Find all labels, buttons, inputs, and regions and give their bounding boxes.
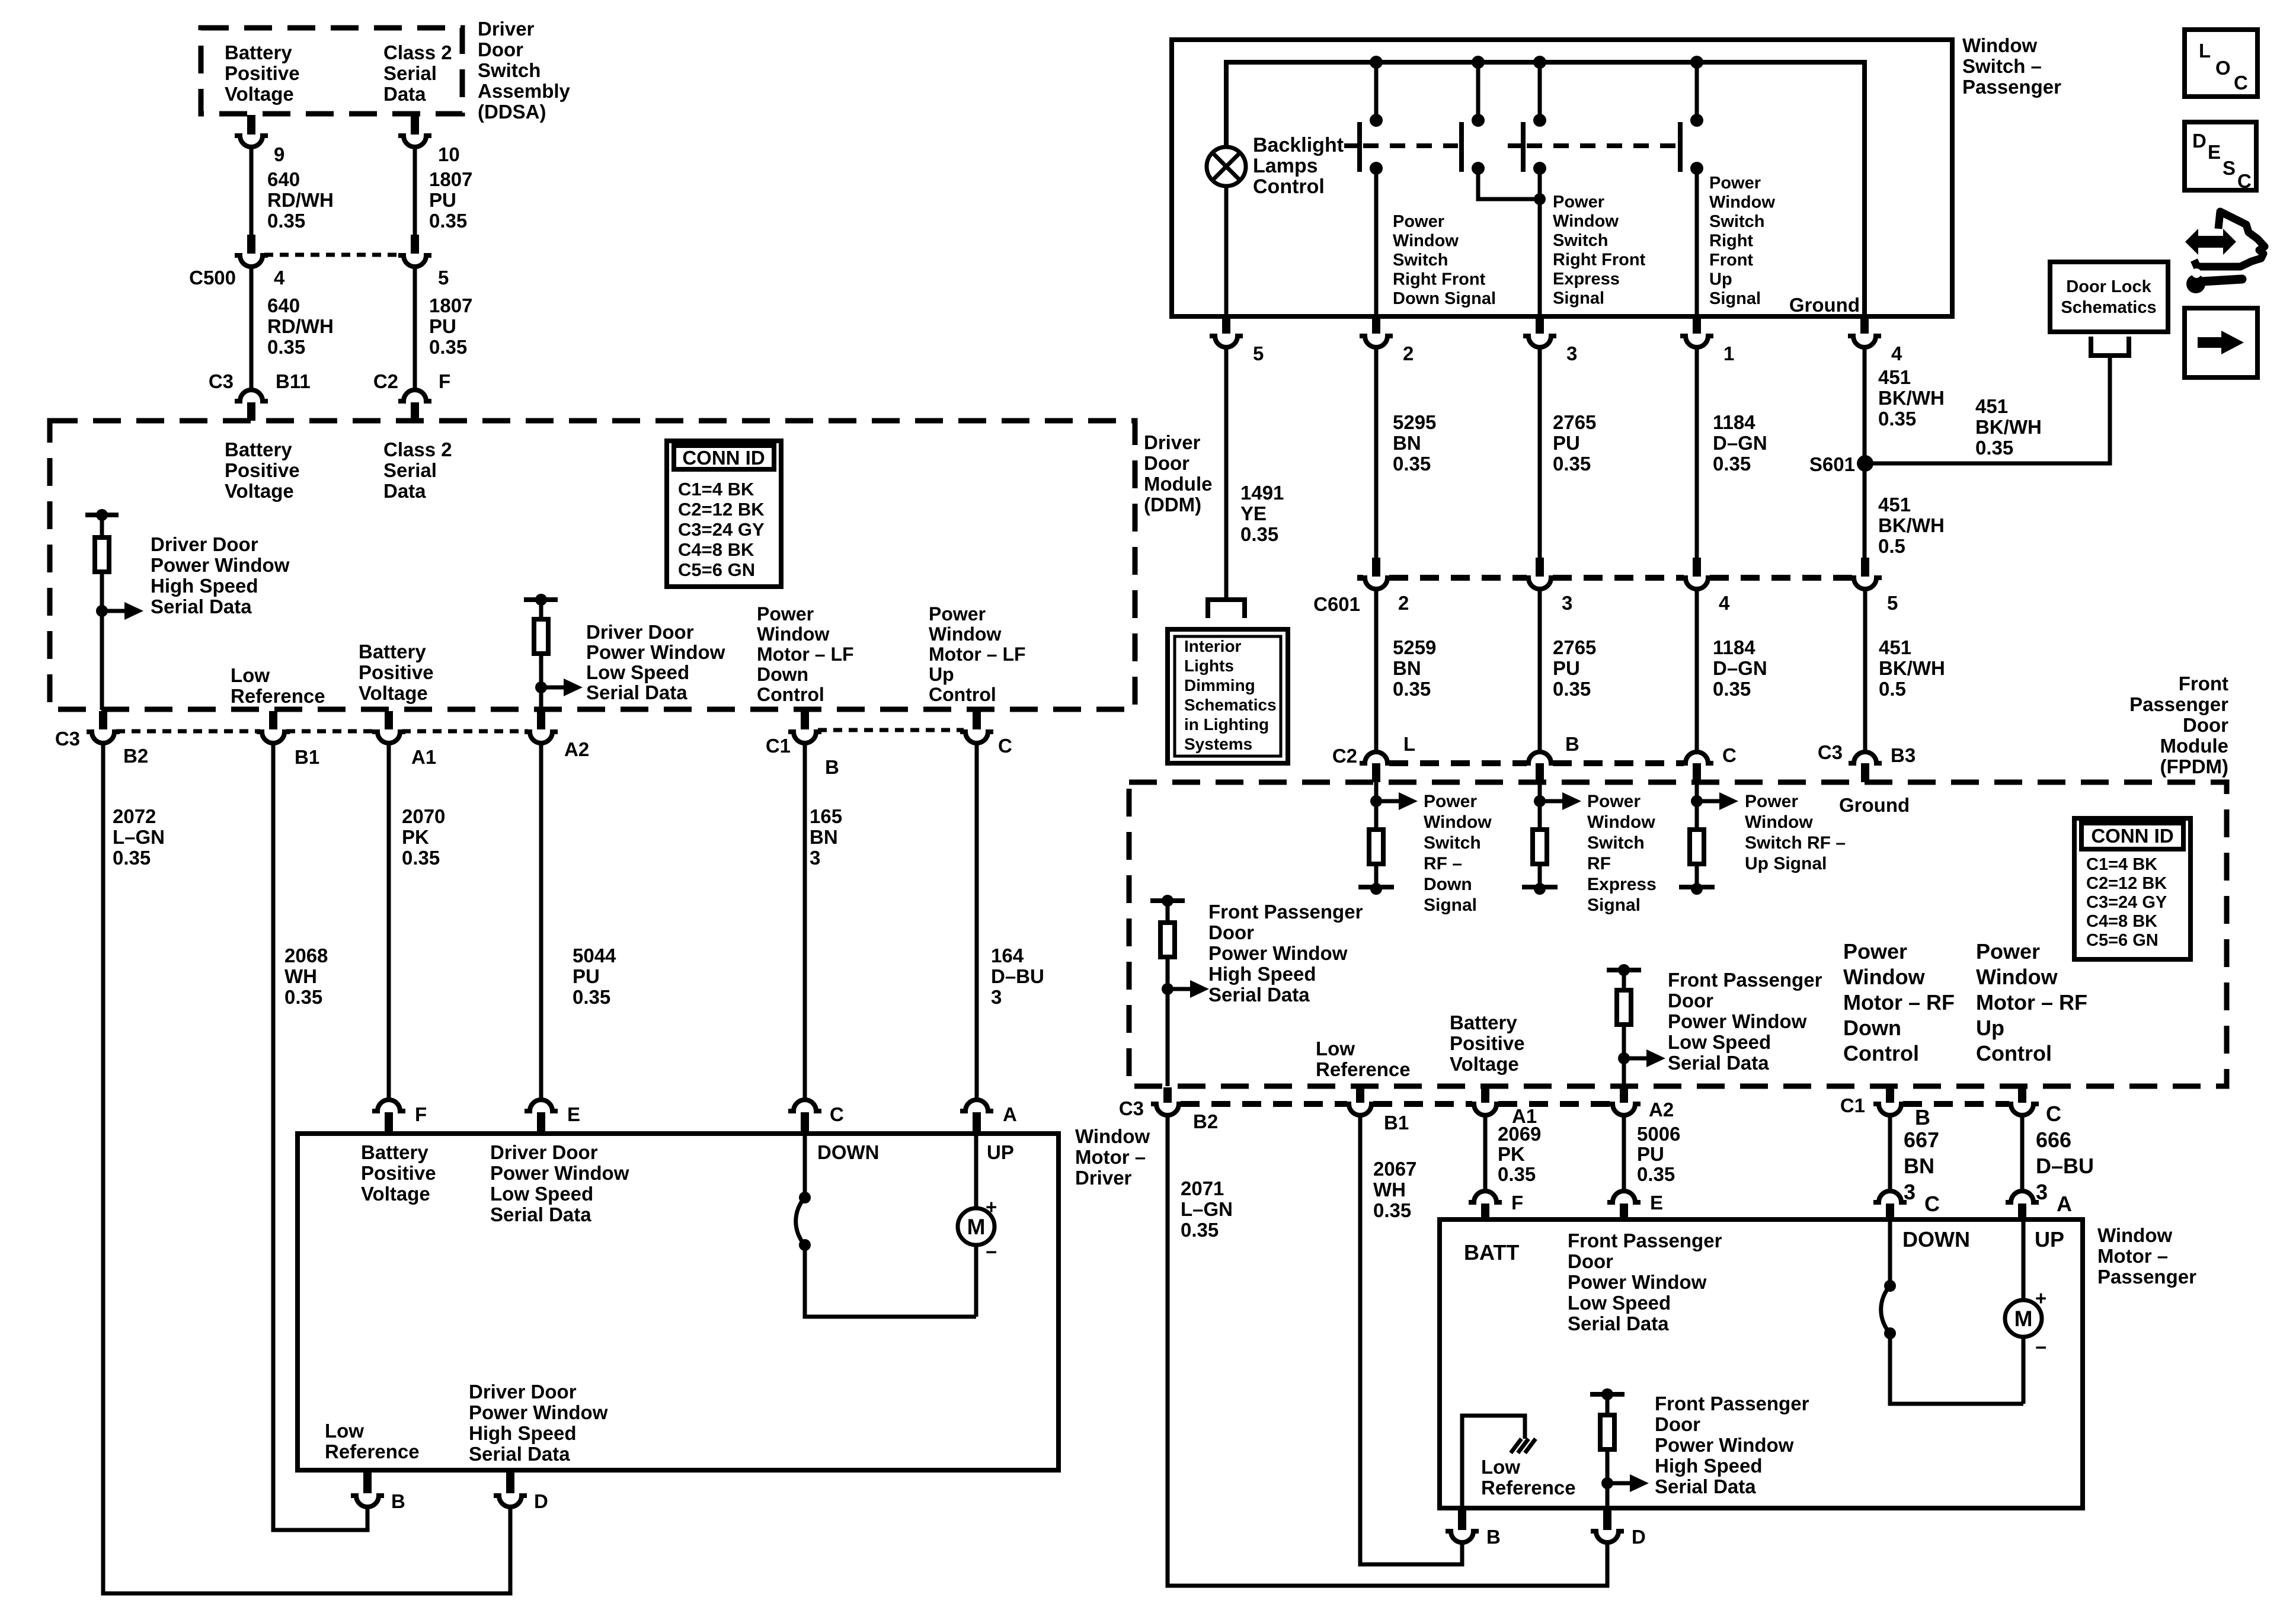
wire resistor to DDM edge (B2 pin) — [100, 572, 104, 710]
wire 165 BN (DDM B to motor C) — [803, 743, 807, 1100]
svg-text:Low Speed: Low Speed — [490, 1183, 593, 1205]
connector motor pin D (driver) — [494, 1471, 527, 1507]
svg-text:A2: A2 — [1649, 1099, 1674, 1121]
pin label B2 (DDM) — [123, 745, 148, 767]
svg-text:0.35: 0.35 — [429, 336, 467, 358]
pin label F (driver motor) — [415, 1103, 427, 1125]
connector C3-B3 into FPDM — [1849, 752, 1882, 782]
svg-text:C1: C1 — [766, 735, 791, 757]
wire switch1 left to pin 2 — [1374, 168, 1379, 316]
connector motor pin C (driver) — [788, 1100, 821, 1134]
switch contact dot lower (driver motor) — [799, 1239, 811, 1251]
svg-text:0.35: 0.35 — [1713, 453, 1751, 475]
svg-text:CONN ID: CONN ID — [682, 447, 765, 469]
svg-text:Class 2: Class 2 — [383, 41, 452, 63]
label Driver Door Power Window High Speed Serial Data — [151, 533, 290, 617]
svg-text:Front: Front — [2179, 673, 2228, 694]
wire switch2 left to pin 3 — [1538, 168, 1542, 316]
svg-text:3: 3 — [1562, 592, 1572, 614]
svg-text:Power: Power — [1745, 792, 1798, 811]
svg-text:0.35: 0.35 — [573, 986, 610, 1008]
svg-text:C3=24 GY: C3=24 GY — [678, 519, 765, 540]
label C3 (FPDM bottom row) — [1119, 1097, 1144, 1119]
svg-text:PU: PU — [1637, 1143, 1664, 1165]
svg-text:High Speed: High Speed — [151, 575, 258, 597]
bus junction dot (pin2 col) — [1370, 56, 1383, 69]
svg-text:B: B — [391, 1490, 405, 1512]
wire label 1491 YE 0.35 — [1240, 482, 1284, 545]
resistor DDM high speed serial data — [95, 537, 109, 572]
DDM label Class 2 Serial Data — [383, 438, 452, 502]
svg-text:E: E — [1650, 1192, 1663, 1214]
connector FPDM pin A1 — [1469, 1087, 1502, 1115]
svg-text:Up: Up — [929, 664, 954, 685]
box Interior Lights Dimming Schematics outer — [1168, 629, 1288, 763]
connector row C500 (dotted) — [264, 253, 402, 257]
terminator bar (DDM high speed branch) — [85, 513, 119, 517]
svg-text:1184: 1184 — [1713, 636, 1755, 658]
label UP (driver motor) — [987, 1141, 1014, 1163]
svg-text:D–GN: D–GN — [1713, 657, 1767, 679]
wire label 640 RD/WH 0.35 (upper) — [267, 168, 334, 232]
label C601 — [1313, 593, 1360, 615]
switch2 right lower contact dot — [1690, 162, 1703, 175]
svg-text:BK/WH: BK/WH — [1975, 416, 2042, 438]
svg-text:164: 164 — [991, 945, 1024, 966]
wire 451 BK/WH (pin 4 to C601) — [1863, 347, 1867, 559]
svg-text:Motor – LF: Motor – LF — [757, 644, 854, 665]
svg-text:Driver: Driver — [1144, 431, 1201, 453]
svg-text:Door: Door — [1655, 1413, 1700, 1435]
svg-text:C5=6 GN: C5=6 GN — [2086, 931, 2159, 950]
table CONN ID (DDM) entries — [678, 479, 765, 580]
svg-text:Front Passenger: Front Passenger — [1568, 1230, 1722, 1251]
svg-text:C: C — [1924, 1192, 1940, 1216]
switch box label PW Switch Right Front Down Signal — [1393, 212, 1496, 308]
svg-text:F: F — [1511, 1192, 1523, 1214]
node dot on terminator (FPDM HS) — [1162, 895, 1173, 907]
wire bus to switch2 right contact — [1695, 62, 1699, 120]
connector C500 pin 4 — [235, 235, 268, 267]
switch blade arc (passenger motor) — [1881, 1286, 1890, 1333]
svg-text:E: E — [2208, 141, 2221, 163]
terminator dot (RF down signal) — [1370, 883, 1382, 895]
arrow RF down signal — [1376, 792, 1418, 810]
switch1 right blade bar — [1459, 122, 1464, 172]
pin label B (passenger motor) — [1486, 1526, 1501, 1548]
svg-text:Low: Low — [231, 664, 270, 686]
svg-text:2071: 2071 — [1181, 1177, 1224, 1199]
wire label 5295 BN 0.35 — [1393, 411, 1436, 475]
svg-text:Reference: Reference — [325, 1441, 420, 1462]
wire label 2765 PU 0.35 (upper) — [1553, 411, 1596, 475]
arrow FPDM low speed serial data — [1624, 1049, 1665, 1067]
connector FPDM pin B1 — [1344, 1087, 1377, 1115]
wire label 451 BK/WH 0.35 (branch) — [1975, 395, 2042, 459]
wire bus to switch1 right contact — [1476, 62, 1480, 120]
label DOWN (passenger motor) — [1902, 1227, 1970, 1251]
svg-text:Switch: Switch — [1393, 251, 1448, 270]
svg-text:C5=6 GN: C5=6 GN — [678, 559, 755, 580]
table CONN ID (FPDM) outer box — [2074, 818, 2191, 959]
svg-text:Signal: Signal — [1587, 895, 1641, 915]
DDM label Power Window Motor - LF Down Control — [757, 603, 854, 705]
svg-text:BK/WH: BK/WH — [1879, 657, 1945, 679]
label Ground (switch box) — [1789, 294, 1860, 316]
wire A pin to motor (driver) — [974, 1134, 978, 1208]
svg-text:C3=24 GY: C3=24 GY — [2086, 893, 2167, 912]
svg-text:Data: Data — [383, 480, 426, 502]
connector DDSA pin 9 — [235, 115, 268, 147]
svg-text:Driver Door: Driver Door — [469, 1381, 577, 1403]
wire 2067 WH (B1 down-around to motor B) — [1360, 1115, 1462, 1564]
bus junction dot (pin3 col) — [1533, 56, 1546, 69]
label C3 (B3 connector) — [1818, 741, 1843, 763]
FPDM label Power Window Motor - RF Up Control — [1976, 939, 2087, 1065]
svg-text:Backlight: Backlight — [1253, 134, 1344, 156]
svg-text:M: M — [2014, 1307, 2033, 1331]
module FPDM box (dashed) — [1129, 782, 2227, 1086]
wire terminator to resistor (DDM HS) — [100, 515, 104, 537]
module Window Switch - Passenger box — [1172, 40, 1952, 316]
wire label 5006 PU 0.35 — [1637, 1123, 1680, 1185]
switch blade arc (driver motor) — [796, 1198, 805, 1245]
svg-text:RD/WH: RD/WH — [267, 315, 334, 337]
svg-text:Battery: Battery — [1450, 1012, 1517, 1033]
svg-text:C: C — [2237, 170, 2252, 192]
module DDM box (dashed) — [50, 421, 1135, 709]
svg-text:Door: Door — [1144, 452, 1189, 474]
svg-text:Window: Window — [1075, 1125, 1150, 1147]
DDM label Power Window Motor - LF Up Control — [929, 603, 1026, 705]
switch1 right upper contact dot — [1472, 114, 1485, 127]
pin label C (C1 FPDM) — [2046, 1102, 2061, 1126]
terminator bar (passenger HS branch) — [1590, 1392, 1625, 1397]
svg-text:−: − — [986, 1241, 997, 1263]
node junction dot (DDM HS serial data tap) — [96, 605, 108, 617]
svg-text:Switch: Switch — [1709, 212, 1764, 231]
svg-text:Driver Door: Driver Door — [490, 1141, 598, 1163]
svg-text:Low: Low — [325, 1420, 364, 1442]
svg-text:Dimming: Dimming — [1184, 676, 1255, 694]
wire switch to motor link (passenger) — [1890, 1333, 2023, 1404]
wire 1807 PU (C500 to DDM C2-F) — [413, 267, 417, 391]
svg-text:0.35: 0.35 — [1878, 408, 1916, 430]
label C3 (B11 connector) — [209, 370, 234, 392]
pin label F (passenger motor) — [1511, 1192, 1523, 1214]
svg-text:Power: Power — [1843, 939, 1907, 964]
wire label 2072 L-GN 0.35 — [113, 805, 165, 869]
svg-text:BK/WH: BK/WH — [1878, 514, 1945, 536]
svg-text:Power Window: Power Window — [1568, 1271, 1707, 1293]
wire 640 RD/WH (DDSA pin 9 to C500) — [250, 147, 254, 236]
svg-text:Ground: Ground — [1839, 794, 1910, 816]
svg-text:Window: Window — [929, 623, 1001, 645]
svg-text:2: 2 — [1403, 343, 1414, 364]
svg-text:Switch –: Switch – — [1962, 55, 2042, 77]
resistor passenger high speed serial data — [1600, 1415, 1614, 1449]
svg-text:0.5: 0.5 — [1879, 678, 1906, 700]
svg-text:C1=4 BK: C1=4 BK — [678, 479, 754, 500]
switch box label PW Switch Right Front Up Signal — [1709, 174, 1775, 308]
pin label C (driver motor) — [830, 1103, 844, 1125]
svg-text:Low Speed: Low Speed — [586, 661, 689, 683]
svg-text:Driver: Driver — [1075, 1167, 1132, 1189]
wire 451 BK/WH (C601 to FPDM C3-B3) — [1863, 591, 1868, 750]
label RF down signal — [1424, 792, 1492, 915]
svg-text:Voltage: Voltage — [359, 682, 428, 704]
svg-text:Window: Window — [1709, 193, 1775, 212]
svg-text:C2=12 BK: C2=12 BK — [2086, 874, 2167, 893]
wire 2070 PK (A1 to motor F) — [387, 743, 391, 1100]
label minus (passenger motor) — [2035, 1336, 2046, 1358]
wire 164 D-BU (DDM C to motor A) — [975, 743, 979, 1100]
resistor RF down signal — [1369, 830, 1383, 864]
svg-text:CONN ID: CONN ID — [2091, 825, 2173, 847]
svg-text:High Speed: High Speed — [1208, 963, 1316, 985]
wire B pin to low reference ground (passenger) — [1462, 1416, 1525, 1508]
wire label 640 RD/WH 0.35 (lower) — [267, 295, 334, 358]
wire resistor to bar (RF express signal) — [1538, 864, 1542, 887]
wire bus to switch1 left contact — [1374, 62, 1379, 120]
pin label B (C1 DDM) — [825, 756, 839, 778]
svg-text:Control: Control — [1843, 1041, 1919, 1065]
terminator dot (RF up signal) — [1691, 883, 1703, 895]
wire bus to switch2 left contact — [1538, 62, 1542, 120]
svg-text:(DDM): (DDM) — [1144, 494, 1201, 516]
label Front Passenger Door Power Window Low Speed Serial Data — [1668, 969, 1822, 1074]
pin label 4 (C601) — [1719, 592, 1730, 614]
svg-text:640: 640 — [267, 168, 300, 190]
svg-text:Switch: Switch — [478, 59, 541, 81]
svg-text:Positive: Positive — [225, 459, 300, 481]
connector row C3 driver (dotted) — [116, 729, 528, 734]
svg-text:PK: PK — [402, 826, 429, 848]
connector C601 pin 4 — [1680, 558, 1713, 589]
off-page connector bracket (door lock) — [2091, 337, 2129, 356]
icon box DESC — [2185, 122, 2256, 190]
svg-text:Serial Data: Serial Data — [151, 596, 252, 617]
connector DDM pin B2 — [87, 711, 120, 743]
svg-text:in Lighting: in Lighting — [1184, 715, 1269, 734]
wire 2071 L-GN (B2 down-around to motor D) — [1168, 1115, 1607, 1586]
label minus (driver motor) — [986, 1241, 997, 1263]
switch1 right lower contact dot — [1472, 162, 1485, 175]
svg-text:Battery: Battery — [359, 641, 426, 662]
svg-text:C2: C2 — [1332, 745, 1357, 767]
wire resistor to bar (RF down signal) — [1374, 864, 1379, 887]
svg-text:S601: S601 — [1809, 453, 1855, 475]
svg-text:Module: Module — [2160, 735, 2228, 757]
svg-text:4: 4 — [1891, 343, 1902, 364]
svg-text:Data: Data — [383, 83, 426, 105]
icon letters LOC — [2199, 40, 2248, 94]
svg-text:Module: Module — [1144, 473, 1212, 495]
DDSA label Battery Positive Voltage — [225, 41, 300, 105]
svg-text:0.35: 0.35 — [1240, 523, 1278, 545]
svg-text:Window: Window — [1424, 812, 1492, 832]
svg-text:A: A — [1003, 1103, 1017, 1125]
svg-text:1491: 1491 — [1240, 482, 1284, 504]
svg-text:C4=8 BK: C4=8 BK — [2086, 912, 2157, 931]
svg-text:C3: C3 — [209, 370, 234, 392]
connector switch box pin 4 — [1848, 318, 1881, 347]
connector C2-B into FPDM — [1523, 752, 1556, 782]
label Driver Door Switch Assembly (DDSA) — [478, 18, 571, 123]
svg-text:1: 1 — [1723, 343, 1734, 364]
svg-text:PU: PU — [429, 315, 456, 337]
svg-text:D–BU: D–BU — [991, 965, 1044, 987]
switch2 left blade bar — [1508, 122, 1523, 172]
svg-text:2765: 2765 — [1553, 411, 1596, 433]
wire resistor to DDM edge (A2 pin) — [539, 654, 543, 710]
svg-text:Down: Down — [1843, 1016, 1901, 1040]
svg-text:165: 165 — [810, 805, 842, 827]
bus junction dot (middle col) — [1472, 56, 1485, 69]
svg-text:451: 451 — [1879, 636, 1911, 658]
svg-text:C601: C601 — [1313, 593, 1360, 615]
motor box label Front Passenger Door Power Window Low Speed Serial Data — [1568, 1230, 1722, 1334]
svg-text:0.35: 0.35 — [267, 210, 305, 232]
table CONN ID (DDM) outer box — [667, 441, 781, 587]
connector DDM pin B1 — [257, 711, 290, 743]
pin label A1 (FPDM) — [1512, 1105, 1537, 1127]
wire 1807 PU (DDSA pin 10 to C500) — [413, 147, 417, 236]
label C1 (FPDM bottom row) — [1840, 1094, 1865, 1116]
svg-text:BATT: BATT — [1464, 1240, 1519, 1265]
svg-text:B: B — [825, 756, 839, 778]
svg-text:2068: 2068 — [284, 945, 328, 966]
svg-text:Power Window: Power Window — [469, 1401, 608, 1423]
svg-text:Class 2: Class 2 — [383, 438, 452, 460]
svg-text:451: 451 — [1878, 366, 1911, 388]
wire switch2 right to pin 1 — [1695, 168, 1699, 316]
svg-text:Down: Down — [1424, 875, 1472, 894]
motor box label Driver Door Power Window Low Speed Serial Data — [490, 1141, 629, 1225]
svg-text:Passenger: Passenger — [2129, 693, 2228, 715]
svg-text:Serial Data: Serial Data — [490, 1204, 591, 1225]
box Door Lock Schematics — [2050, 262, 2168, 332]
svg-text:S: S — [2223, 157, 2236, 179]
pin label B (FPDM C2) — [1565, 733, 1579, 755]
svg-text:Power: Power — [929, 603, 986, 625]
pin label 2 (C601) — [1398, 592, 1409, 614]
svg-text:2072: 2072 — [113, 805, 156, 827]
wire 2765 PU (C601 to FPDM C2-B) — [1538, 591, 1542, 750]
svg-text:PU: PU — [1553, 432, 1580, 454]
svg-text:Schematics: Schematics — [1184, 696, 1277, 714]
wire label 451 BK/WH 0.35 (pin4) — [1878, 366, 1945, 430]
svg-text:667: 667 — [1904, 1128, 1939, 1152]
DDSA label Class 2 Serial Data — [383, 41, 452, 105]
pin label 5 (switch box) — [1253, 343, 1264, 364]
svg-text:Reference: Reference — [1481, 1477, 1576, 1499]
icon right arrow — [2198, 331, 2244, 354]
svg-text:BN: BN — [1904, 1154, 1934, 1178]
label C1 (DDM bottom row) — [766, 735, 791, 757]
terminator dot (RF express signal) — [1534, 883, 1546, 895]
svg-text:4: 4 — [274, 267, 285, 289]
wire label 2070 PK 0.35 — [402, 805, 445, 869]
svg-text:B2: B2 — [123, 745, 148, 767]
wire 640 RD/WH (C500 to DDM C3-B11) — [250, 267, 254, 391]
bus junction dot (pin1 col) — [1690, 56, 1703, 69]
pin label B (C1 FPDM) — [1915, 1105, 1930, 1129]
svg-text:640: 640 — [267, 295, 300, 316]
splice S601 — [1857, 455, 1873, 472]
wire terminator to resistor (passenger HS) — [1606, 1394, 1610, 1415]
svg-text:Front Passenger: Front Passenger — [1208, 901, 1363, 923]
svg-text:F: F — [439, 370, 450, 392]
pin label C (C1 DDM) — [998, 735, 1012, 757]
svg-text:C500: C500 — [189, 267, 236, 289]
terminator bar (RF up signal) — [1679, 885, 1715, 889]
wire label 2067 WH 0.35 — [1373, 1158, 1416, 1221]
svg-text:Down Signal: Down Signal — [1393, 289, 1496, 308]
svg-text:5: 5 — [1253, 343, 1264, 364]
svg-text:3: 3 — [810, 847, 820, 869]
svg-text:D–GN: D–GN — [1713, 432, 1767, 454]
label BATT — [1464, 1240, 1519, 1265]
wire label 667 BN 3 — [1904, 1128, 1939, 1204]
label S601 — [1809, 453, 1855, 475]
svg-text:0.35: 0.35 — [1393, 678, 1431, 700]
node junction dot (DDM LS serial data tap) — [535, 681, 547, 693]
svg-text:Power Window: Power Window — [586, 641, 725, 663]
svg-text:C: C — [2234, 72, 2248, 94]
svg-text:RD/WH: RD/WH — [267, 189, 334, 211]
svg-text:Control: Control — [1253, 175, 1325, 198]
svg-text:Switch: Switch — [1553, 231, 1608, 250]
svg-text:Passenger: Passenger — [1962, 76, 2061, 98]
arrow DDM high speed serial data — [102, 602, 143, 620]
svg-text:Lights: Lights — [1184, 657, 1234, 675]
label C500 — [189, 267, 236, 289]
svg-text:UP: UP — [2035, 1227, 2064, 1251]
wire label 451 BK/WH 0.5 (below S601) — [1878, 494, 1945, 557]
svg-text:L–GN: L–GN — [1181, 1198, 1233, 1220]
connector motor pin D (passenger) — [1591, 1509, 1624, 1542]
svg-text:0.35: 0.35 — [1553, 678, 1591, 700]
svg-text:Up Signal: Up Signal — [1745, 854, 1827, 873]
svg-text:Voltage: Voltage — [1450, 1053, 1519, 1075]
svg-text:5259: 5259 — [1393, 636, 1436, 658]
arrow RF up signal — [1697, 792, 1738, 810]
svg-text:C3: C3 — [1818, 741, 1843, 763]
svg-text:Window: Window — [1393, 232, 1459, 251]
terminator bar (RF express signal) — [1522, 885, 1558, 889]
node junction dot (RF express signal) — [1534, 795, 1546, 807]
svg-text:Driver: Driver — [478, 18, 535, 40]
node junction dot (FPDM LS tap) — [1618, 1052, 1630, 1064]
svg-text:Window: Window — [1587, 812, 1655, 832]
pin label 1 (switch box) — [1723, 343, 1734, 364]
icon double arrow — [2185, 229, 2236, 255]
wire terminator to resistor (FPDM LS) — [1622, 970, 1626, 990]
svg-text:D: D — [2192, 130, 2207, 152]
arrow RF express signal — [1540, 792, 1581, 810]
svg-text:Window: Window — [757, 623, 829, 645]
svg-text:Control: Control — [757, 684, 824, 705]
resistor RF up signal — [1690, 830, 1704, 864]
pin label E (driver motor) — [567, 1103, 580, 1125]
svg-text:C1: C1 — [1840, 1094, 1865, 1116]
svg-text:C3: C3 — [55, 728, 80, 750]
connector C601 pin 3 — [1523, 558, 1556, 589]
node dot on terminator (passenger HS) — [1601, 1388, 1613, 1400]
wire label 451 BK/WH 0.5 (lower) — [1879, 636, 1945, 700]
label Window Motor - Passenger — [2097, 1224, 2196, 1288]
